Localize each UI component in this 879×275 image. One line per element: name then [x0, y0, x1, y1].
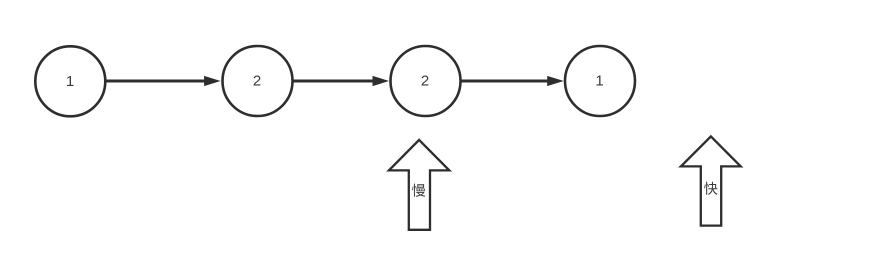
- slow pointer label 慢: [412, 184, 425, 197]
- svg-text:1: 1: [66, 73, 74, 90]
- wire arrow N1 to N2: [106, 77, 219, 86]
- svg-text:2: 2: [421, 73, 429, 90]
- node N4 (value 1): [565, 46, 635, 116]
- svg-text:1: 1: [595, 73, 603, 90]
- node N3 (value 2): [391, 46, 461, 116]
- node N1 (value 1): [35, 46, 105, 116]
- fast pointer block arrow: [681, 136, 741, 225]
- slow pointer block arrow: [389, 140, 449, 230]
- svg-text:2: 2: [253, 73, 261, 90]
- fast pointer label 快: [704, 182, 717, 195]
- wire arrow N2 to N3: [293, 77, 387, 86]
- node N2 (value 2): [223, 46, 293, 116]
- wire arrow N3 to N4: [461, 77, 562, 86]
